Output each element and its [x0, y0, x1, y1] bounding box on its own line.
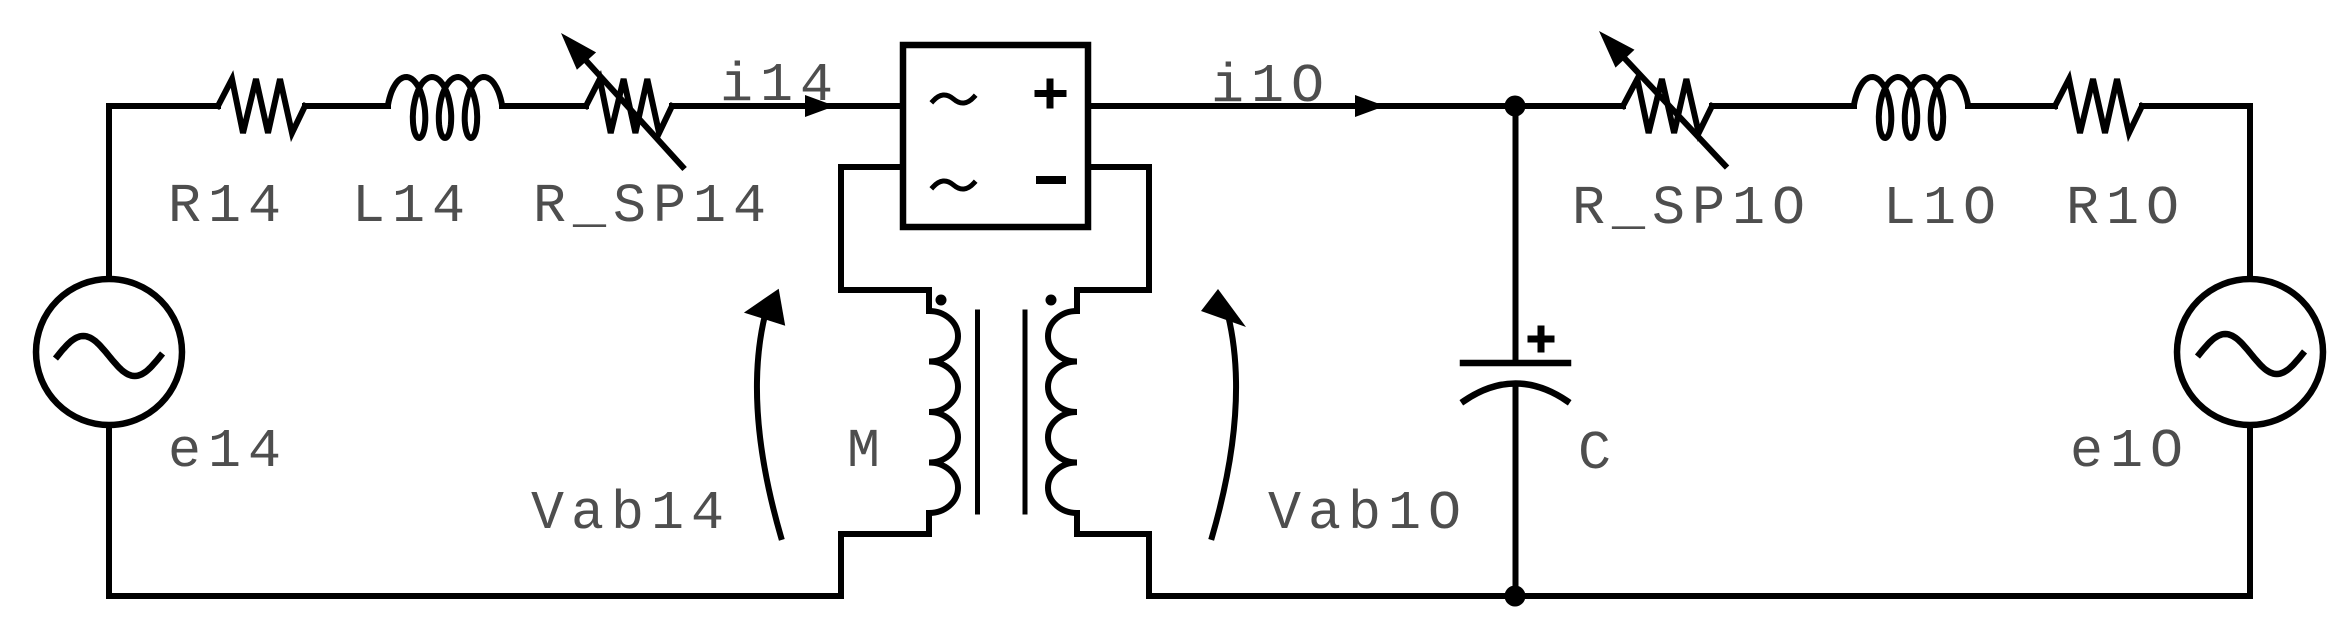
- wire: [1712, 103, 1854, 109]
- svg-text:M: M: [847, 420, 887, 483]
- source e10: [2177, 279, 2323, 425]
- transformer dot primary: [936, 295, 947, 306]
- wire converter to node: [1088, 103, 1514, 109]
- svg-text:i1O: i1O: [1211, 55, 1331, 118]
- transformer left lead bottom: [841, 513, 929, 596]
- wire: [1968, 103, 2055, 109]
- node junction top: [1505, 96, 1526, 117]
- converter ac symbol top: [933, 95, 974, 103]
- source e14: [36, 279, 182, 425]
- transformer core: [978, 312, 1026, 512]
- transformer primary winding: [929, 311, 958, 513]
- wire top-left: [109, 103, 218, 109]
- svg-text:R_SP14: R_SP14: [533, 175, 773, 238]
- wire: [305, 103, 388, 109]
- svg-text:Vab14: Vab14: [531, 482, 731, 545]
- transformer dot secondary: [1046, 295, 1057, 306]
- rheostat arrow R_SP10: [1625, 59, 1725, 166]
- svg-text:e1O: e1O: [2070, 420, 2190, 483]
- capacitor plus: [1531, 329, 1551, 349]
- svg-text:C: C: [1578, 422, 1618, 485]
- svg-text:R1O: R1O: [2066, 177, 2186, 240]
- svg-text:Vab1O: Vab1O: [1268, 482, 1468, 545]
- inductor L10: [1854, 77, 1968, 138]
- R_SP10 arrowhead: [1599, 31, 1635, 68]
- wire top-right corner: [2142, 106, 2250, 279]
- converter plus: [1038, 82, 1063, 105]
- Vab14 arrow shaft: [757, 315, 781, 537]
- capacitor C plate bottom (curved): [1464, 384, 1567, 402]
- wire left side down: [106, 106, 112, 279]
- rheostat arrow R_SP14: [587, 61, 683, 167]
- svg-text:i14: i14: [720, 54, 840, 117]
- converter minus: [1040, 176, 1062, 184]
- svg-text:R_SP1O: R_SP1O: [1572, 177, 1812, 240]
- svg-text:L14: L14: [352, 175, 472, 238]
- converter box U1: [903, 45, 1088, 227]
- wire: [502, 103, 586, 109]
- svg-text:R14: R14: [168, 175, 288, 238]
- bottom wire right: [1149, 593, 2250, 599]
- wire node to R_SP10: [1514, 103, 1623, 109]
- transformer secondary winding: [1048, 311, 1077, 513]
- transformer right lead: [1077, 167, 1149, 311]
- capacitor wire top: [1513, 106, 1519, 363]
- Vab14 arrowhead: [744, 289, 785, 326]
- rheostat R_SP14: [586, 79, 672, 133]
- Vab10 arrowhead: [1201, 289, 1246, 327]
- bottom wire left: [109, 593, 841, 599]
- Vab10 arrow shaft: [1212, 315, 1236, 537]
- svg-text:e14: e14: [168, 420, 288, 483]
- converter ac symbol bottom: [933, 181, 974, 189]
- svg-text:L1O: L1O: [1883, 177, 2003, 240]
- transformer right lead bottom: [1077, 513, 1149, 596]
- inductor L14: [388, 77, 502, 138]
- i10 arrowhead: [1355, 95, 1385, 117]
- resistor R10: [2055, 79, 2142, 133]
- rheostat R_SP10: [1623, 79, 1712, 133]
- capacitor C plate top: [1463, 360, 1568, 367]
- capacitor wire bottom: [1513, 384, 1519, 596]
- resistor R14: [218, 79, 305, 133]
- wire to converter: [672, 103, 903, 109]
- wire below e10: [2247, 425, 2253, 596]
- wire below e14: [106, 425, 112, 596]
- i14 arrowhead: [805, 95, 835, 117]
- transformer left lead: [841, 167, 929, 311]
- node junction bottom: [1505, 586, 1526, 607]
- R_SP14 arrowhead: [561, 33, 596, 70]
